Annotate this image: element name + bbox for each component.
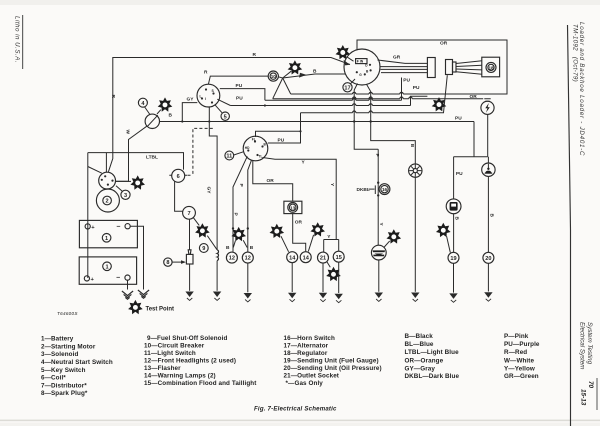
svg-text:B: B <box>313 69 317 75</box>
wire alternator drop right <box>367 84 371 121</box>
wire B1 minus to ground <box>130 226 143 289</box>
svg-text:1: 1 <box>105 236 108 242</box>
svg-text:16—Horn Switch: 16—Horn Switch <box>284 335 335 342</box>
wire P headlight left <box>233 156 247 252</box>
label circle 11 <box>225 151 234 160</box>
ground fuel solenoid <box>213 292 221 301</box>
leader 21 to star <box>327 262 331 268</box>
bolt connector ticks <box>484 99 490 102</box>
hops RowB <box>353 104 373 106</box>
svg-text:Y—Yellow: Y—Yellow <box>504 366 535 373</box>
svg-text:PU: PU <box>403 78 410 84</box>
label circle 17 <box>343 83 352 92</box>
wire light switch top riser <box>256 131 301 137</box>
wire P headlight right <box>248 160 252 252</box>
flasher circle 13 <box>288 203 298 213</box>
fuel shut-off solenoid L9 coil <box>217 250 218 261</box>
test point star at flood <box>387 229 402 243</box>
legend column 3 <box>284 335 382 387</box>
light switch S11 <box>243 136 268 161</box>
label circle 3 <box>121 190 130 199</box>
bolt glyph <box>485 103 490 113</box>
label circle 1 (B2) <box>103 262 112 271</box>
wire RowB PU <box>230 96 427 105</box>
scan artifact top band <box>0 0 600 5</box>
svg-text:15-13: 15-13 <box>580 389 587 406</box>
wire PU2 key diagonal <box>217 99 230 105</box>
svg-text:GY: GY <box>187 96 195 102</box>
coil terminal ticks <box>169 174 187 176</box>
wire solenoid to test star <box>116 180 131 182</box>
svg-text:OR: OR <box>295 220 303 226</box>
alternator G17 <box>344 49 380 85</box>
node B junction <box>181 120 183 122</box>
fuel gauge G19 icon <box>446 199 461 214</box>
label circle 2 <box>103 196 112 205</box>
svg-text:OR: OR <box>267 178 275 184</box>
svg-text:15—Combination Flood and Taill: 15—Combination Flood and Taillight <box>144 380 257 387</box>
svg-text:4: 4 <box>141 101 145 107</box>
svg-text:Electrical System: Electrical System <box>579 322 586 369</box>
wire B2 minus to ground <box>127 280 129 289</box>
svg-text:+: + <box>91 225 95 231</box>
wire star9 to fuel solenoid coil <box>207 236 217 250</box>
node RowD junction P <box>353 120 355 122</box>
svg-text:OR: OR <box>440 41 448 47</box>
svg-text:S: S <box>212 89 215 93</box>
svg-text:14: 14 <box>303 255 310 261</box>
svg-text:18: 18 <box>488 65 494 70</box>
label circle 4 <box>138 98 147 107</box>
svg-text:1: 1 <box>105 264 108 270</box>
leader star to FIN <box>347 57 354 62</box>
svg-text:W—White: W—White <box>504 357 534 364</box>
wire P chain down <box>377 149 379 245</box>
wire fuel solenoid to ground <box>216 261 218 291</box>
headlight L12b <box>242 252 253 263</box>
svg-text:20: 20 <box>485 256 491 262</box>
svg-text:G: G <box>359 73 362 77</box>
svg-text:11—Light Switch: 11—Light Switch <box>144 350 196 357</box>
wire W neutral switch to solenoid <box>116 126 147 181</box>
svg-text:GR: GR <box>393 55 401 61</box>
wire 12b to ground <box>247 263 249 292</box>
wire connector pin4 <box>381 72 427 74</box>
node headlight junctions <box>232 227 234 229</box>
svg-text:LTBL—Light Blue: LTBL—Light Blue <box>405 349 460 356</box>
svg-text:TM-1092 (Oct-79): TM-1092 (Oct-79) <box>572 24 579 82</box>
horn spokes <box>409 165 421 177</box>
wire 15 to ground <box>338 262 340 293</box>
wire bolt to lamp chain <box>454 114 488 156</box>
ground 21 <box>319 293 327 302</box>
neutral start switch contact <box>147 115 158 126</box>
leader from 4 <box>145 107 150 115</box>
node breaker output junction <box>278 77 282 78</box>
wire B neutral switch to key switch <box>159 103 197 122</box>
legend column 1 <box>41 336 113 397</box>
svg-text:9—Fuel Shut-Off Solenoid: 9—Fuel Shut-Off Solenoid <box>147 335 227 342</box>
test point star at connector <box>432 97 447 111</box>
right margin divider rule <box>568 25 571 426</box>
solenoid terminals <box>101 175 114 186</box>
svg-text:21—Outlet Socket: 21—Outlet Socket <box>284 373 340 380</box>
wire Y bracket to 21 and 15 <box>324 240 339 253</box>
wire B breaker to alternator <box>283 74 346 78</box>
svg-text:FL: FL <box>252 138 256 142</box>
wire RowC to connector2 <box>301 75 448 113</box>
ground 14a <box>288 293 296 302</box>
svg-text:B: B <box>409 144 415 148</box>
svg-text:W: W <box>125 130 131 135</box>
regulator circle 18 <box>486 62 496 72</box>
svg-text:D: D <box>365 64 368 68</box>
leader star to 14a <box>281 236 289 252</box>
svg-text:GY: GY <box>206 187 212 195</box>
headlight L12a <box>226 252 237 263</box>
wire PU1 key to bundle <box>220 89 265 101</box>
svg-text:T64600S: T64600S <box>57 311 78 316</box>
svg-text:PU: PU <box>455 116 462 122</box>
svg-text:20—Sending Unit (Oil Pressure): 20—Sending Unit (Oil Pressure) <box>284 365 382 372</box>
node riser tee <box>299 130 301 132</box>
battery B2 case <box>79 257 136 284</box>
wire GY run to fuel solenoid <box>209 122 217 250</box>
wire fan to regulator <box>456 61 482 75</box>
leader star to flood <box>384 241 389 247</box>
label circle 9 <box>199 244 208 253</box>
wire P chain from RowD <box>354 122 378 150</box>
test point star fuel <box>436 223 451 237</box>
svg-text:3: 3 <box>124 193 127 199</box>
svg-text:7—Distributor*: 7—Distributor* <box>41 382 87 389</box>
wire breaker to star <box>283 71 292 78</box>
wire 21 to ground <box>322 263 324 292</box>
svg-text:1—Battery: 1—Battery <box>41 336 74 343</box>
ground flood <box>375 293 383 302</box>
leader from 3 <box>116 186 122 192</box>
wire Y taillight run <box>263 158 337 240</box>
svg-text:8—Spark Plug*: 8—Spark Plug* <box>41 390 88 397</box>
wire RowA PU <box>265 78 402 101</box>
svg-text:L: L <box>200 95 202 99</box>
svg-text:70: 70 <box>587 381 594 389</box>
svg-text:12: 12 <box>229 256 235 262</box>
svg-text:Y: Y <box>327 234 331 240</box>
node DKBL junction top <box>377 182 379 184</box>
wire funnel lower to outlet feed <box>273 78 283 99</box>
svg-text:B: B <box>169 113 173 119</box>
test point star headlights <box>231 227 246 241</box>
ground 19 <box>449 293 457 302</box>
svg-text:GY—Gray: GY—Gray <box>405 366 436 373</box>
ground battery 2 <box>122 291 133 299</box>
wire R top run <box>113 58 350 153</box>
ground headlight <box>244 293 252 302</box>
leader from 17 <box>350 79 355 84</box>
hops on OR loop <box>353 92 404 94</box>
label circle 8 <box>164 258 172 266</box>
footer page rule <box>596 378 598 410</box>
svg-text:7: 7 <box>187 211 190 217</box>
svg-text:R: R <box>204 70 208 76</box>
wire OR flasher feed <box>253 160 293 201</box>
wire horn feed <box>371 122 416 165</box>
leader star to 14b <box>308 235 313 252</box>
svg-text:PU—Purple: PU—Purple <box>504 341 540 348</box>
wire PU drop from RowD <box>473 122 475 157</box>
alternator terminals <box>356 64 372 76</box>
circuit breaker U10 <box>268 71 278 81</box>
svg-text:F IN: F IN <box>357 60 364 64</box>
flasher U13 box <box>284 201 302 213</box>
svg-text:B: B <box>366 69 369 73</box>
svg-text:PU: PU <box>456 171 463 177</box>
wire OR loop <box>291 40 507 94</box>
hops RowA <box>353 98 373 100</box>
wire battery positive riser <box>87 153 89 278</box>
hops RowC <box>353 111 373 113</box>
wire connector pin3 <box>381 68 428 70</box>
oil pressure lamp icon <box>482 163 495 176</box>
svg-text:5—Key Switch: 5—Key Switch <box>41 367 86 374</box>
svg-text:10—Circuit Breaker: 10—Circuit Breaker <box>144 343 205 350</box>
ground 15 <box>335 294 343 303</box>
label circle 5 <box>221 112 229 120</box>
svg-text:11: 11 <box>226 154 232 160</box>
leader from 11 <box>234 152 244 155</box>
neutral start switch S4 <box>145 114 159 128</box>
svg-text:+: + <box>91 277 95 283</box>
svg-text:17: 17 <box>344 85 350 91</box>
sending unit 19 <box>448 252 459 263</box>
svg-text:8: 8 <box>166 260 169 266</box>
leader star to S4 <box>157 110 161 114</box>
svg-text:OR: OR <box>470 94 478 100</box>
wire distributor to spark plug <box>189 219 191 250</box>
svg-text:14: 14 <box>289 255 296 261</box>
wire fuel icon down <box>453 214 455 253</box>
test point star below 21 <box>326 267 341 281</box>
test point star lamp right <box>310 222 325 236</box>
svg-text:19: 19 <box>450 256 456 262</box>
svg-text:–: – <box>116 275 120 282</box>
svg-text:B—Black: B—Black <box>405 333 434 340</box>
svg-text:Fig. 7-Electrical Schematic: Fig. 7-Electrical Schematic <box>254 406 337 413</box>
node DKBL junction bottom <box>377 194 379 196</box>
svg-text:21: 21 <box>320 256 326 262</box>
svg-text:19—Sending Unit (Fuel Gauge): 19—Sending Unit (Fuel Gauge) <box>284 358 379 365</box>
leader star to 12a <box>233 241 235 248</box>
wire LTBL horizontal <box>88 153 184 170</box>
battery B1 plus terminal <box>85 224 90 229</box>
node key drop junction <box>208 120 210 122</box>
svg-text:*—Gas Only: *—Gas Only <box>286 380 324 387</box>
svg-text:17—Alternator: 17—Alternator <box>284 343 329 350</box>
wire RowC riser from light switch PU <box>268 113 301 143</box>
sending unit 20 <box>483 252 494 263</box>
key switch terminals <box>201 88 215 103</box>
wire hops on outlet feed <box>353 97 413 99</box>
legend column 2 <box>144 335 257 387</box>
warning lamp L14b <box>300 252 311 263</box>
svg-text:PU: PU <box>278 138 285 144</box>
svg-text:Y: Y <box>378 223 384 227</box>
leader arrow from 8 <box>172 261 182 263</box>
svg-text:5: 5 <box>224 114 227 120</box>
wire R arrowhead <box>344 60 350 66</box>
battery B2 plus terminal <box>84 276 89 281</box>
regulator U18 box <box>482 57 500 77</box>
leader from 5 <box>215 105 223 113</box>
distributor U7 <box>183 206 196 219</box>
node PU cross dot <box>264 104 266 106</box>
svg-text:P: P <box>238 184 244 188</box>
svg-text:B: B <box>453 217 459 221</box>
svg-text:OR—Orange: OR—Orange <box>405 357 444 364</box>
ground 20 <box>484 292 492 301</box>
warning lamp L14a <box>287 252 298 263</box>
key switch S5 <box>197 84 220 107</box>
svg-text:HD: HD <box>245 146 250 150</box>
node RowD junction horn <box>370 120 372 122</box>
svg-text:B: B <box>488 214 494 218</box>
test point star main <box>128 300 143 314</box>
svg-text:15: 15 <box>336 255 342 261</box>
label circle 1 (B1) <box>102 234 111 243</box>
ground spark plug <box>185 292 193 301</box>
svg-text:2—Starting Motor: 2—Starting Motor <box>41 344 96 351</box>
svg-text:18—Regulator: 18—Regulator <box>284 350 328 357</box>
connector X2 <box>446 60 453 75</box>
svg-text:BL—Blue: BL—Blue <box>405 341 434 348</box>
outlet socket K bolt circle <box>481 101 494 114</box>
svg-text:3—Solenoid: 3—Solenoid <box>41 351 78 358</box>
connector X1 <box>427 58 435 78</box>
svg-text:9: 9 <box>202 246 205 252</box>
spark plug P8 <box>188 250 191 255</box>
wire RowD main <box>159 121 474 123</box>
flood lamp lens <box>373 250 385 256</box>
svg-text:13—Flasher: 13—Flasher <box>144 365 181 372</box>
svg-text:R: R <box>253 52 257 58</box>
svg-text:4—Neutral Start Switch: 4—Neutral Start Switch <box>41 359 113 366</box>
svg-text:GR—Green: GR—Green <box>504 373 539 380</box>
wire 20 to ground <box>487 263 489 291</box>
alternator FIN terminal box <box>356 59 367 64</box>
horn H16 <box>409 164 422 177</box>
test point star near S4 <box>158 97 173 111</box>
wire key top to circuit breaker <box>208 76 268 84</box>
horn switch S16 bar <box>374 185 376 194</box>
svg-text:PU: PU <box>236 83 243 89</box>
svg-text:PU: PU <box>413 85 420 91</box>
svg-text:6: 6 <box>177 174 180 180</box>
svg-text:B: B <box>250 245 254 251</box>
test point star 9 <box>195 223 210 237</box>
wire lamp chain down <box>487 157 489 253</box>
solenoid S3 <box>99 172 116 189</box>
wire solenoid feeds <box>106 153 112 173</box>
wire 14a to ground <box>291 263 293 292</box>
ignition coil U6 <box>172 169 185 182</box>
svg-text:TL: TL <box>259 155 263 159</box>
legend column 4 wire colors <box>405 333 460 380</box>
svg-text:6—Coil*: 6—Coil* <box>41 375 66 382</box>
ground horn <box>411 293 419 302</box>
svg-text:PU: PU <box>236 96 243 102</box>
wire 19 to ground <box>453 263 455 292</box>
svg-text:12: 12 <box>245 256 251 262</box>
wire alternator drop left <box>354 84 357 122</box>
dashed link key to coil <box>186 128 213 175</box>
scan artifact bottom streak <box>0 420 600 422</box>
label circle 16 <box>379 184 390 195</box>
wire GR alternator to connector <box>378 60 428 63</box>
svg-text:Litho in U.S.A.: Litho in U.S.A. <box>14 16 21 63</box>
light switch terminals <box>247 140 263 156</box>
leader star to 19 <box>447 236 451 252</box>
wire B alternator to connector <box>380 66 427 68</box>
wire outlet feed run <box>273 98 484 100</box>
wire horn to ground <box>414 177 416 291</box>
svg-text:13: 13 <box>290 205 296 210</box>
test point star at solenoid <box>130 175 145 189</box>
svg-text:10: 10 <box>271 74 277 79</box>
svg-text:12—Front Headlights (2 used): 12—Front Headlights (2 used) <box>144 358 236 365</box>
taillight E15 circle <box>333 251 344 262</box>
svg-text:2: 2 <box>106 199 109 205</box>
svg-text:Y: Y <box>329 183 335 187</box>
svg-text:14—Warning Lamps (2): 14—Warning Lamps (2) <box>144 373 216 380</box>
battery B1 case <box>79 220 137 247</box>
bulb glyph <box>485 171 492 174</box>
svg-text:Test Point: Test Point <box>146 306 175 312</box>
flood and taillight E15 <box>371 245 386 260</box>
test point star lamp left <box>270 224 285 238</box>
svg-text:R: R <box>110 95 116 99</box>
svg-text:Y: Y <box>302 159 306 165</box>
wire funnel upper to OR loop <box>283 78 291 94</box>
svg-text:–: – <box>117 224 121 231</box>
wire key bottom drop <box>208 107 210 122</box>
svg-text:B: B <box>226 245 230 251</box>
svg-text:P—Pink: P—Pink <box>504 333 529 340</box>
wire coil to distributor <box>175 181 183 211</box>
svg-text:R—Red: R—Red <box>504 349 527 356</box>
svg-text:P: P <box>374 154 380 158</box>
wire flood to ground <box>378 260 380 292</box>
wire distributor to star9 <box>193 218 199 226</box>
ground battery 1 <box>138 290 149 298</box>
wire fuel gauge chain <box>453 157 455 199</box>
left margin rule <box>22 15 24 69</box>
wire battery+ to solenoid diagonal <box>88 167 102 174</box>
svg-text:16: 16 <box>382 187 388 192</box>
svg-text:DKBL: DKBL <box>357 187 370 193</box>
svg-text:DKBL—Dark Blue: DKBL—Dark Blue <box>405 373 460 380</box>
leader star to 12b <box>243 240 247 247</box>
test point star at alternator <box>336 45 351 59</box>
wire B arrowhead <box>299 73 307 78</box>
svg-text:I: I <box>205 97 206 101</box>
test point star at breaker <box>288 60 303 74</box>
starting motor M2 <box>96 189 119 212</box>
legend column 5 wire colors <box>504 333 540 380</box>
outlet socket J21 <box>318 252 329 263</box>
fuel pump glyph <box>450 202 458 211</box>
svg-text:LTBL: LTBL <box>146 155 158 161</box>
